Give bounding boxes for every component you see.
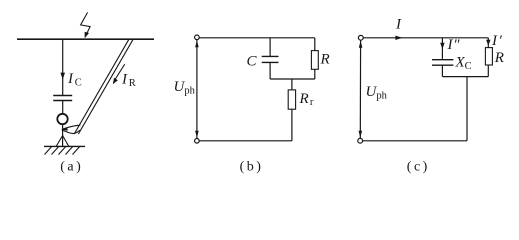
terminal top xyxy=(195,35,200,40)
resistor R xyxy=(485,48,492,65)
svg-text:I: I xyxy=(395,17,402,33)
resistor R xyxy=(311,51,318,70)
current arrow IR (annotation arrow) xyxy=(115,64,125,80)
wire below C xyxy=(269,63,271,79)
capacitor C xyxy=(262,55,279,57)
svg-text:R: R xyxy=(494,50,504,66)
mid wire xyxy=(442,76,488,78)
resistor Rr xyxy=(288,90,295,109)
wire below R xyxy=(314,69,316,79)
wire: line to capacitor xyxy=(62,40,64,95)
wire down to R with current arrow xyxy=(487,38,489,48)
overhead phase line xyxy=(17,38,154,40)
svg-text:(c): (c) xyxy=(407,160,430,175)
earth line xyxy=(44,145,85,147)
splayed grounding strokes xyxy=(56,136,62,147)
svg-text:I″: I″ xyxy=(447,37,461,53)
lightning stroke symbol xyxy=(81,12,91,38)
voltage arrowhead down xyxy=(359,131,363,138)
terminal bottom xyxy=(358,138,363,143)
top wire xyxy=(199,37,315,39)
wire below XC xyxy=(441,65,443,76)
left wire xyxy=(359,40,361,138)
svg-text:(a): (a) xyxy=(60,160,83,175)
svg-text:IR: IR xyxy=(121,72,136,90)
voltage arrowhead up xyxy=(359,41,363,48)
terminal top xyxy=(358,35,363,40)
bottom wire xyxy=(199,140,292,142)
wire down to Rr xyxy=(291,79,293,90)
arc arrowhead at fault point xyxy=(62,125,81,129)
mid wire xyxy=(270,78,315,80)
top wire xyxy=(363,37,488,39)
faulted conductor double line xyxy=(74,39,129,134)
svg-text:IC: IC xyxy=(67,71,82,89)
svg-text:Rr: Rr xyxy=(299,91,314,108)
wire down to XC with current arrow xyxy=(441,38,443,59)
left wire xyxy=(196,40,198,139)
electrode ball xyxy=(57,114,67,124)
current arrowhead I'' xyxy=(440,43,444,50)
current arrow I xyxy=(395,36,402,40)
wire down to capacitor C xyxy=(269,38,271,56)
current arrowhead I' xyxy=(486,40,490,46)
svg-text:(b): (b) xyxy=(240,160,264,175)
svg-text:Uph: Uph xyxy=(174,79,196,97)
wire: capacitor to electrode ball xyxy=(62,101,64,114)
svg-text:I′: I′ xyxy=(491,33,503,49)
voltage arrowhead down xyxy=(195,131,199,138)
voltage arrowhead up xyxy=(195,40,199,47)
bottom wire xyxy=(363,140,467,142)
wire below R xyxy=(487,65,489,77)
wire: ball to earth xyxy=(62,124,64,146)
terminal bottom xyxy=(195,139,200,144)
wire Rr to bottom xyxy=(291,109,293,141)
svg-text:R: R xyxy=(320,52,330,68)
earth hatching xyxy=(45,147,80,155)
svg-text:XC: XC xyxy=(455,55,472,73)
svg-text:Uph: Uph xyxy=(366,84,388,102)
svg-text:C: C xyxy=(247,54,258,70)
wire down to bottom xyxy=(466,77,468,141)
capacitor (line-to-ground capacitance) xyxy=(53,95,72,97)
capacitor XC xyxy=(432,59,453,61)
current arrow IC xyxy=(60,73,65,80)
wire down to resistor R xyxy=(314,38,316,51)
